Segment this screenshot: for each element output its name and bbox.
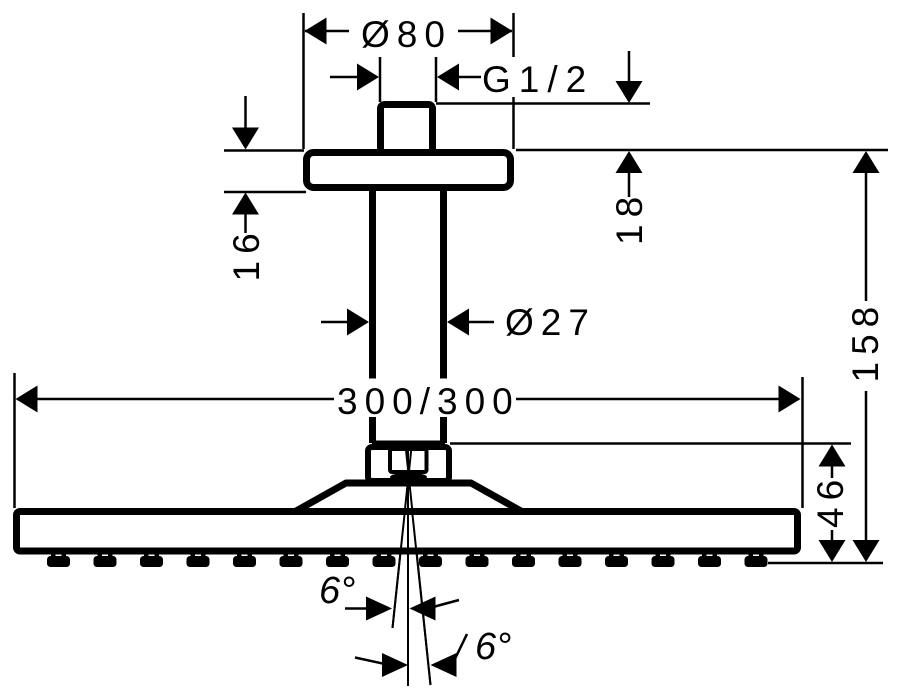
- nozzle row: [47, 553, 768, 567]
- dim Ø80 line and arrows: [305, 18, 513, 45]
- spray centre line: [407, 446, 409, 686]
- dim 16 extension line top: [224, 149, 304, 152]
- pipe left wall (lower): [369, 417, 376, 443]
- bottom extension line: [768, 562, 883, 565]
- dim Ø27 left arrow: [321, 309, 369, 336]
- dim 46 upper arrow: [819, 445, 846, 479]
- dim G1/2 arrows: [330, 64, 481, 91]
- dim 158 upper arrow: [853, 151, 880, 301]
- svg-text:18: 18: [609, 190, 650, 245]
- ball cup ellipse: [390, 473, 427, 481]
- flange top extension line right: [516, 149, 888, 152]
- pipe right wall (upper): [440, 191, 447, 379]
- dim Ø80 extension line right: [512, 13, 515, 57]
- dim 18 lower arrow: [616, 151, 643, 197]
- dim 158 lower arrow: [853, 391, 880, 562]
- dim 18 upper arrow: [616, 51, 643, 103]
- angle 6° left upper arrow: [345, 597, 392, 621]
- svg-text:Ø27: Ø27: [505, 302, 596, 343]
- svg-text:6°: 6°: [475, 626, 511, 668]
- G1/2 threaded connector block: [381, 105, 433, 160]
- pipe right wall (lower): [440, 417, 447, 443]
- spray right 6° line: [406, 450, 431, 685]
- dim 300/300 line and arrows: [16, 386, 801, 413]
- svg-text:G1/2: G1/2: [482, 59, 594, 100]
- dim 300/300 extension line right: [801, 377, 804, 508]
- ceiling flange (escutcheon): [307, 153, 511, 188]
- svg-text:Ø80: Ø80: [361, 14, 452, 55]
- dim 16 extension line bottom: [224, 191, 306, 194]
- mounting boss trapezoid: [296, 483, 521, 511]
- angle 6° left upper counter-arrow: [410, 597, 460, 621]
- dim 46 extension line top: [450, 442, 851, 445]
- dim G1/2 extension line right: [435, 57, 438, 102]
- dim G1/2 extension line left: [379, 57, 382, 102]
- dim 300/300 extension line left: [13, 373, 16, 508]
- ball square: [390, 449, 427, 472]
- angle 6° right lower arrow: [355, 653, 408, 677]
- svg-text:300/300: 300/300: [337, 381, 520, 422]
- svg-text:6°: 6°: [319, 570, 355, 612]
- angle 6° right lower counter-arrow: [431, 634, 468, 677]
- shower head plate: [17, 512, 798, 552]
- pipe left wall (upper): [369, 191, 376, 379]
- joint nut bar: [372, 441, 445, 451]
- svg-text:16: 16: [226, 226, 267, 281]
- dim Ø27 right arrow: [447, 309, 494, 336]
- dim 16 upper arrow: [232, 96, 259, 150]
- svg-text:158: 158: [845, 300, 886, 383]
- svg-text:46: 46: [810, 473, 851, 528]
- dim 18 extension line top: [436, 102, 650, 105]
- spray lines lower portion redrawn over plate: [393, 510, 431, 686]
- ball joint housing: [368, 447, 449, 481]
- spray left 6° line: [393, 450, 412, 628]
- dim Ø80 extension line left: [302, 13, 305, 149]
- dim 16 lower arrow: [232, 193, 259, 234]
- dim 46 lower arrow: [819, 530, 846, 562]
